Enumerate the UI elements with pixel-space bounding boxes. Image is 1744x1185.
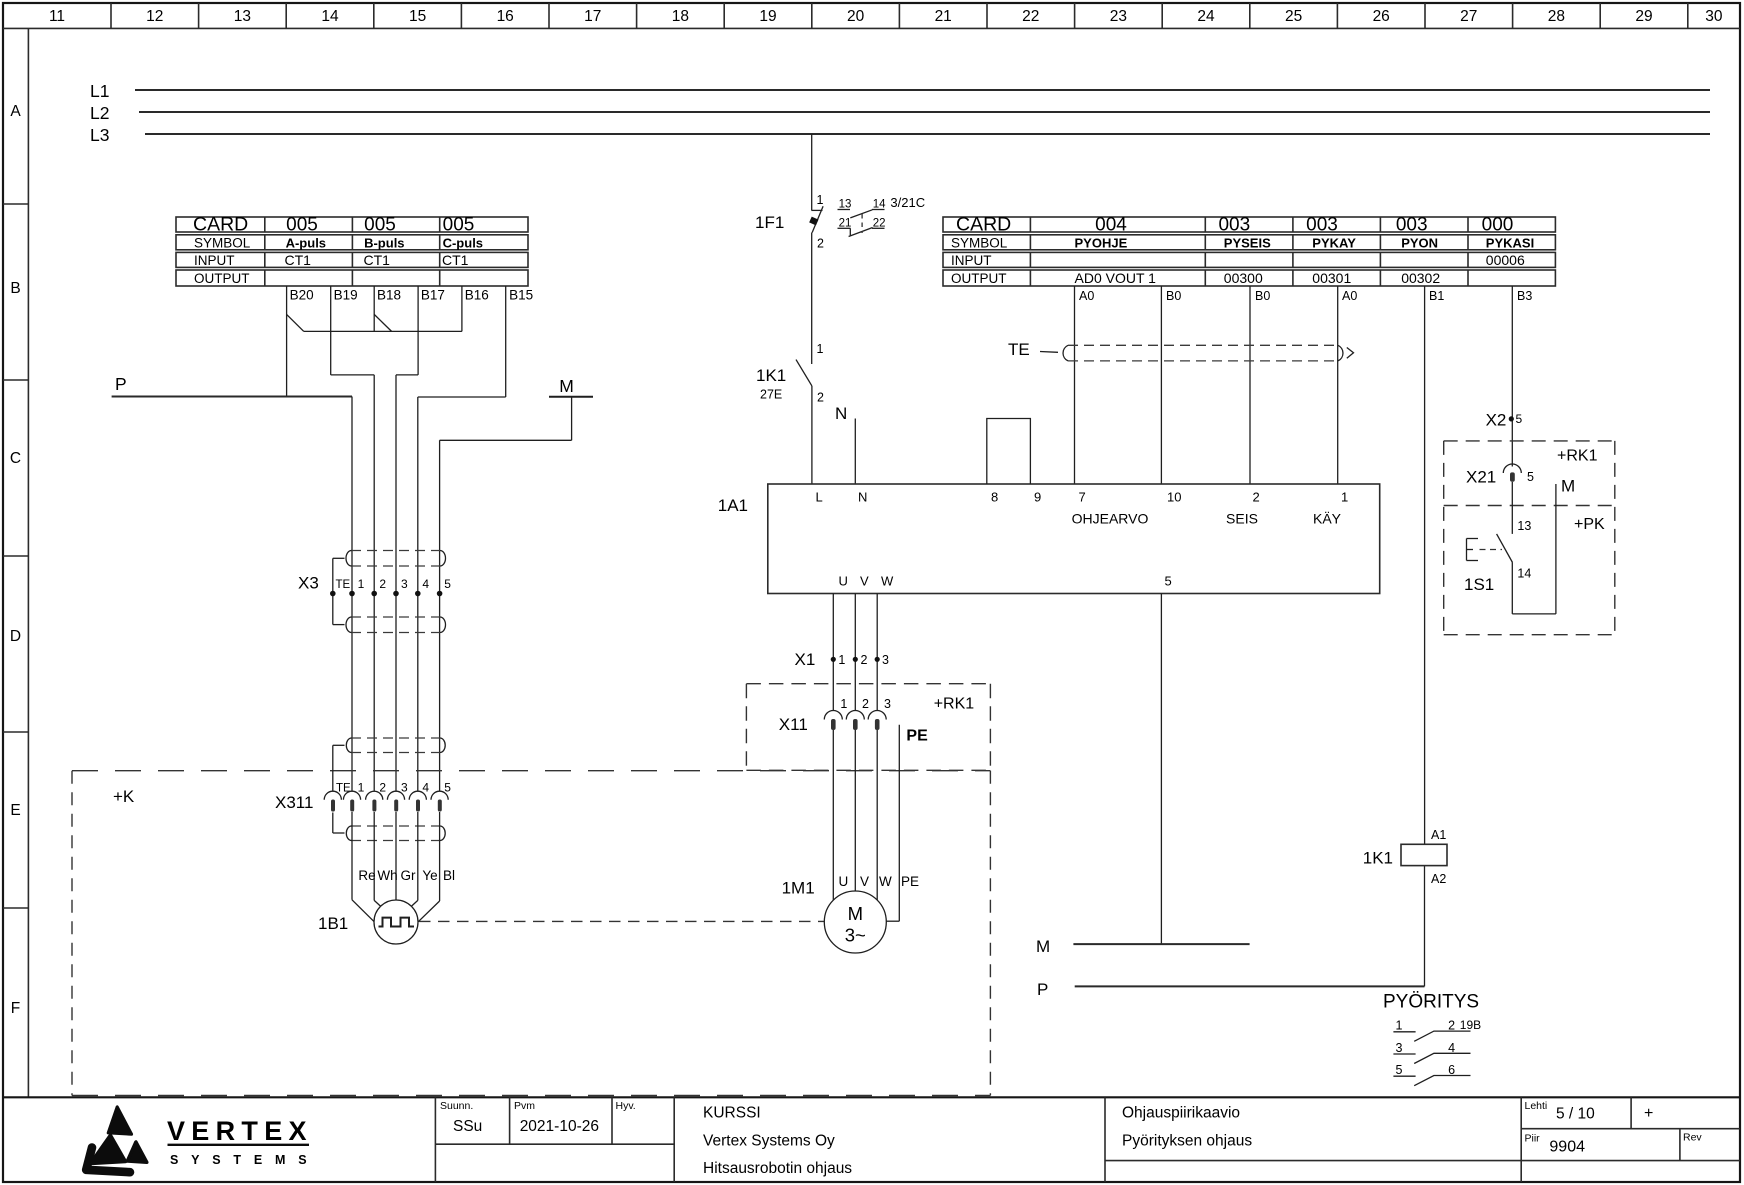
svg-text:Ohjauspiirikaavio: Ohjauspiirikaavio xyxy=(1122,1105,1240,1122)
svg-text:004: 004 xyxy=(1095,215,1127,236)
svg-text:PYON: PYON xyxy=(1401,236,1438,251)
wire X11-1 to motor xyxy=(832,730,834,900)
contact 1F1 aux 21-22 xyxy=(838,214,886,237)
svg-text:PYÖRITYS: PYÖRITYS xyxy=(1383,992,1479,1013)
svg-text:KURSSI: KURSSI xyxy=(703,1105,761,1122)
svg-text:PYKAY: PYKAY xyxy=(1312,236,1356,251)
wire 1F1 to 1K1 xyxy=(811,233,813,365)
svg-text:24: 24 xyxy=(1197,8,1215,25)
wire L1 xyxy=(135,89,1710,91)
wire B0 to pin2 xyxy=(1249,286,1251,484)
svg-text:9904: 9904 xyxy=(1549,1139,1585,1156)
svg-text:L: L xyxy=(816,490,823,505)
terminal block X3 xyxy=(298,551,451,633)
breaker 1F1 xyxy=(755,193,824,251)
svg-text:INPUT: INPUT xyxy=(951,253,992,268)
svg-text:P: P xyxy=(115,374,127,394)
svg-text:2: 2 xyxy=(379,781,386,795)
svg-text:27E: 27E xyxy=(760,388,782,402)
svg-text:2021-10-26: 2021-10-26 xyxy=(520,1118,599,1135)
svg-text:1: 1 xyxy=(838,653,845,667)
svg-text:14: 14 xyxy=(1517,567,1531,581)
wire P rail to coil A2 xyxy=(1075,985,1425,987)
wire X311-1 to encoder xyxy=(352,812,374,922)
svg-text:+K: +K xyxy=(113,787,135,806)
wire B16 xyxy=(461,286,463,331)
svg-text:1: 1 xyxy=(358,781,365,795)
svg-text:L2: L2 xyxy=(90,103,109,123)
wire M right xyxy=(1555,484,1557,614)
svg-text:28: 28 xyxy=(1548,8,1565,25)
svg-text:Vertex Systems Oy: Vertex Systems Oy xyxy=(703,1133,835,1150)
terminal X2 xyxy=(1486,411,1523,430)
svg-text:M: M xyxy=(1036,937,1050,956)
svg-text:3: 3 xyxy=(1396,1041,1403,1055)
svg-text:1: 1 xyxy=(1341,490,1348,505)
svg-text:X2: X2 xyxy=(1486,411,1507,430)
switch 1S1 xyxy=(1464,519,1531,594)
switch PYORITYS xyxy=(1383,992,1481,1086)
svg-text:2: 2 xyxy=(379,577,386,591)
frame +RK1 +PK dashed box xyxy=(1444,441,1615,635)
svg-text:00300: 00300 xyxy=(1224,270,1263,286)
svg-text:+RK1: +RK1 xyxy=(1557,448,1598,465)
svg-text:19: 19 xyxy=(759,8,776,25)
svg-text:X1: X1 xyxy=(795,650,816,669)
svg-text:AD0 VOUT 1: AD0 VOUT 1 xyxy=(1075,270,1157,286)
svg-text:Pyörityksen ohjaus: Pyörityksen ohjaus xyxy=(1122,1133,1252,1150)
svg-text:CT1: CT1 xyxy=(442,252,469,268)
border top bar line xyxy=(3,27,1740,29)
svg-text:1: 1 xyxy=(1396,1019,1403,1033)
svg-text:PE: PE xyxy=(901,874,919,889)
svg-text:C-puls: C-puls xyxy=(443,236,483,251)
svg-text:Suunn.: Suunn. xyxy=(440,1100,473,1112)
terminal block X311 xyxy=(275,738,451,841)
svg-text:SYMBOL: SYMBOL xyxy=(951,236,1008,251)
svg-text:L1: L1 xyxy=(90,81,109,101)
svg-text:005: 005 xyxy=(443,215,475,236)
svg-text:CT1: CT1 xyxy=(285,252,312,268)
svg-text:KÄY: KÄY xyxy=(1313,511,1342,527)
svg-text:B0: B0 xyxy=(1255,289,1270,303)
svg-text:29: 29 xyxy=(1635,8,1652,25)
svg-text:13: 13 xyxy=(1517,519,1531,533)
wire P left xyxy=(112,396,352,398)
svg-text:OUTPUT: OUTPUT xyxy=(951,271,1007,286)
svg-text:15: 15 xyxy=(409,8,426,25)
svg-text:005: 005 xyxy=(364,215,396,236)
svg-text:22: 22 xyxy=(1022,8,1039,25)
svg-text:21: 21 xyxy=(935,8,952,25)
svg-text:5: 5 xyxy=(1165,574,1172,589)
svg-text:Re: Re xyxy=(358,868,375,883)
svg-text:F: F xyxy=(11,1000,20,1017)
svg-text:14: 14 xyxy=(321,8,339,25)
svg-text:3: 3 xyxy=(401,577,408,591)
svg-text:8: 8 xyxy=(991,490,998,505)
svg-text:1: 1 xyxy=(817,193,824,207)
svg-text:003: 003 xyxy=(1396,215,1428,236)
svg-text:16: 16 xyxy=(497,8,514,25)
frame +K dashed box xyxy=(72,771,990,1096)
svg-text:B18: B18 xyxy=(377,288,401,303)
svg-text:P: P xyxy=(1037,980,1048,999)
svg-text:M: M xyxy=(848,903,863,924)
wire 1S1 to M xyxy=(1512,563,1556,614)
svg-text:2: 2 xyxy=(1448,1019,1455,1033)
wire pin5 to M rail xyxy=(1160,594,1162,945)
svg-text:26: 26 xyxy=(1373,8,1390,25)
svg-text:1: 1 xyxy=(358,577,365,591)
wire 1K1 to 1A1 L xyxy=(811,386,813,484)
svg-text:INPUT: INPUT xyxy=(194,253,235,268)
title block frame xyxy=(3,1097,1740,1182)
terminal X21 xyxy=(1466,464,1534,487)
svg-text:M: M xyxy=(559,376,574,396)
svg-text:SYMBOL: SYMBOL xyxy=(194,236,251,251)
wire B17 xyxy=(396,286,418,791)
frame +RK1 dashed box motor xyxy=(746,684,990,771)
svg-text:Gr: Gr xyxy=(401,868,417,883)
svg-text:4: 4 xyxy=(422,781,429,795)
svg-text:W: W xyxy=(881,574,894,589)
wire M rail xyxy=(1073,943,1249,945)
wire X311-4 to encoder xyxy=(411,812,418,907)
svg-text:4: 4 xyxy=(1448,1041,1455,1055)
svg-text:Wh: Wh xyxy=(377,868,397,883)
svg-text:1A1: 1A1 xyxy=(718,496,748,515)
svg-text:PYKASI: PYKASI xyxy=(1486,236,1534,251)
svg-text:X21: X21 xyxy=(1466,468,1496,487)
svg-text:E: E xyxy=(10,802,20,819)
svg-text:2: 2 xyxy=(817,391,824,405)
wire B3 to X21 xyxy=(1511,286,1513,467)
wire B20 xyxy=(287,286,304,397)
wire X311-3 to encoder xyxy=(395,812,397,900)
svg-text:+: + xyxy=(1644,1105,1653,1122)
wire pair link xyxy=(304,330,462,332)
svg-text:12: 12 xyxy=(146,8,163,25)
svg-text:Lehti: Lehti xyxy=(1525,1100,1548,1112)
wire N xyxy=(854,419,856,485)
svg-text:3: 3 xyxy=(882,653,889,667)
wire L3 tap xyxy=(811,134,813,210)
svg-text:003: 003 xyxy=(1306,215,1338,236)
svg-text:20: 20 xyxy=(847,8,865,25)
svg-text:30: 30 xyxy=(1705,8,1723,25)
svg-text:19B: 19B xyxy=(1460,1018,1481,1032)
svg-text:+PK: +PK xyxy=(1574,516,1605,533)
svg-text:A1: A1 xyxy=(1431,828,1446,842)
svg-text:2: 2 xyxy=(817,237,824,251)
svg-text:U: U xyxy=(839,574,848,589)
node wire colors Re Wh Gr Ye Bl xyxy=(358,868,455,883)
row ticks letter column xyxy=(3,204,28,908)
terminal block X11 xyxy=(779,697,891,734)
svg-text:27: 27 xyxy=(1460,8,1477,25)
svg-text:Piir: Piir xyxy=(1525,1133,1541,1145)
svg-text:1K1: 1K1 xyxy=(1363,849,1393,868)
svg-text:Pvm: Pvm xyxy=(514,1100,535,1112)
svg-text:N: N xyxy=(858,490,867,505)
svg-text:B20: B20 xyxy=(290,288,314,303)
svg-text:5: 5 xyxy=(1516,412,1523,426)
svg-text:SYSTEMS: SYSTEMS xyxy=(170,1153,319,1167)
svg-text:TE: TE xyxy=(336,579,351,591)
svg-text:3~: 3~ xyxy=(845,925,866,946)
wire jumper 8-9 xyxy=(987,419,1031,485)
svg-text:7: 7 xyxy=(1079,490,1086,505)
wire L3 xyxy=(145,133,1710,135)
svg-text:1S1: 1S1 xyxy=(1464,575,1494,594)
svg-text:9: 9 xyxy=(1034,490,1041,505)
svg-text:25: 25 xyxy=(1285,8,1302,25)
svg-text:00302: 00302 xyxy=(1401,270,1440,286)
svg-text:17: 17 xyxy=(584,8,601,25)
svg-text:A0: A0 xyxy=(1079,289,1094,303)
column numbers 11-30 xyxy=(49,8,1723,25)
svg-text:CARD: CARD xyxy=(956,214,1011,236)
svg-text:PE: PE xyxy=(906,728,928,745)
svg-text:B1: B1 xyxy=(1429,289,1444,303)
contact 1K1 NO xyxy=(756,342,824,405)
svg-text:B: B xyxy=(10,280,20,297)
svg-text:Hyv.: Hyv. xyxy=(616,1100,636,1112)
encoder 1B1 xyxy=(318,900,418,944)
svg-text:Rev: Rev xyxy=(1683,1132,1702,1144)
svg-text:X3: X3 xyxy=(298,574,319,593)
shield TE cable marker xyxy=(1008,340,1354,361)
svg-text:VERTEX: VERTEX xyxy=(167,1116,313,1146)
wire X311-2 to encoder xyxy=(374,812,381,907)
svg-text:3/21C: 3/21C xyxy=(890,195,925,210)
svg-text:00301: 00301 xyxy=(1312,270,1351,286)
svg-text:U: U xyxy=(839,874,849,889)
wire A0 to pin7 xyxy=(1074,286,1076,484)
svg-text:PYSEIS: PYSEIS xyxy=(1224,236,1271,251)
svg-text:V: V xyxy=(860,874,869,889)
svg-text:005: 005 xyxy=(286,215,318,236)
border letter column line xyxy=(27,28,29,1097)
svg-text:003: 003 xyxy=(1218,215,1250,236)
wire B19 xyxy=(331,286,375,375)
coil 1K1 xyxy=(1363,828,1447,886)
svg-text:M: M xyxy=(1561,477,1575,496)
svg-text:B3: B3 xyxy=(1517,289,1532,303)
svg-text:SEIS: SEIS xyxy=(1226,511,1258,527)
svg-text:3: 3 xyxy=(884,697,891,711)
wire X11-3 to motor xyxy=(876,730,878,900)
logo Vertex Systems xyxy=(86,1107,319,1172)
terminal X1 xyxy=(795,650,890,669)
svg-text:1F1: 1F1 xyxy=(755,213,784,232)
svg-text:OHJEARVO: OHJEARVO xyxy=(1072,511,1149,527)
wire V xyxy=(854,594,856,711)
svg-text:SSu: SSu xyxy=(453,1118,482,1135)
svg-text:1: 1 xyxy=(840,697,847,711)
wire X11-2 to motor xyxy=(854,730,856,891)
svg-text:13: 13 xyxy=(234,8,251,25)
column ticks top bar xyxy=(111,3,1688,28)
svg-text:4: 4 xyxy=(422,577,429,591)
link encoder to motor dashed xyxy=(419,920,824,922)
wire X21 to 1S1 xyxy=(1511,482,1513,534)
wire X311-5 to encoder xyxy=(418,812,439,922)
svg-text:2: 2 xyxy=(1253,490,1260,505)
table right I/O card xyxy=(943,214,1555,287)
svg-text:A2: A2 xyxy=(1431,872,1446,886)
svg-text:5 / 10: 5 / 10 xyxy=(1556,1106,1595,1123)
svg-text:13: 13 xyxy=(839,199,852,211)
svg-text:00006: 00006 xyxy=(1486,252,1525,268)
motor 1M1 xyxy=(782,874,919,953)
svg-text:1M1: 1M1 xyxy=(782,879,815,898)
svg-text:Bl: Bl xyxy=(443,868,455,883)
svg-text:B17: B17 xyxy=(421,288,445,303)
contact 1F1 aux 13-14 xyxy=(838,195,926,218)
svg-text:B16: B16 xyxy=(465,288,489,303)
svg-text:1: 1 xyxy=(817,342,824,356)
svg-text:1B1: 1B1 xyxy=(318,914,348,933)
svg-text:CARD: CARD xyxy=(193,214,248,236)
row letters A-F xyxy=(10,103,21,1017)
svg-text:3: 3 xyxy=(401,781,408,795)
svg-text:L3: L3 xyxy=(90,125,109,145)
svg-text:OUTPUT: OUTPUT xyxy=(194,271,250,286)
svg-text:A: A xyxy=(10,103,21,120)
svg-text:Ye: Ye xyxy=(422,868,437,883)
svg-text:5: 5 xyxy=(444,577,451,591)
wire B0 to pin10 xyxy=(1160,286,1162,484)
svg-text:Hitsausrobotin ohjaus: Hitsausrobotin ohjaus xyxy=(703,1160,852,1177)
svg-text:A0: A0 xyxy=(1342,289,1357,303)
svg-text:23: 23 xyxy=(1110,8,1127,25)
wire PE xyxy=(886,725,899,922)
table left I/O card xyxy=(176,214,528,287)
svg-text:6: 6 xyxy=(1448,1063,1455,1077)
svg-text:X311: X311 xyxy=(275,793,313,812)
svg-text:5: 5 xyxy=(444,781,451,795)
svg-text:CT1: CT1 xyxy=(364,252,391,268)
svg-text:W: W xyxy=(879,874,892,889)
controller 1A1 xyxy=(718,484,1380,594)
svg-text:1K1: 1K1 xyxy=(756,366,786,385)
svg-text:11: 11 xyxy=(49,8,65,25)
svg-text:PYOHJE: PYOHJE xyxy=(1075,236,1128,251)
wire B15 xyxy=(418,286,506,791)
svg-text:B15: B15 xyxy=(509,288,533,303)
wire W xyxy=(876,594,878,711)
svg-text:10: 10 xyxy=(1167,490,1181,505)
wire M left xyxy=(440,397,593,791)
svg-text:N: N xyxy=(835,404,847,423)
svg-text:2: 2 xyxy=(861,653,868,667)
svg-text:X11: X11 xyxy=(779,715,808,734)
wire A0 to pin1 xyxy=(1337,286,1339,484)
wire B1 to coil xyxy=(1424,286,1426,844)
svg-text:18: 18 xyxy=(672,8,689,25)
svg-text:B19: B19 xyxy=(334,288,358,303)
wire U xyxy=(832,594,834,711)
svg-text:000: 000 xyxy=(1482,215,1514,236)
wire B18 xyxy=(374,286,391,791)
svg-text:V: V xyxy=(860,574,869,589)
svg-text:5: 5 xyxy=(1527,470,1534,484)
svg-text:C: C xyxy=(10,450,21,467)
svg-text:B-puls: B-puls xyxy=(364,236,404,251)
svg-text:D: D xyxy=(10,628,21,645)
svg-text:A-puls: A-puls xyxy=(286,236,326,251)
svg-text:B0: B0 xyxy=(1166,289,1181,303)
wire L2 xyxy=(139,111,1710,113)
svg-text:14: 14 xyxy=(873,199,886,211)
svg-text:TE: TE xyxy=(1008,340,1030,359)
svg-text:2: 2 xyxy=(862,697,869,711)
svg-text:5: 5 xyxy=(1396,1063,1403,1077)
svg-text:+RK1: +RK1 xyxy=(934,696,975,713)
